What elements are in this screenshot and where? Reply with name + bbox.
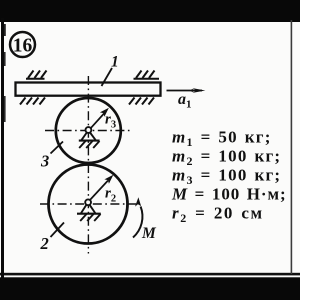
- label 3 leader line: [51, 142, 64, 154]
- pulley 2: [49, 165, 128, 244]
- svg-text:M = 100 Н·м;: M = 100 Н·м;: [171, 185, 287, 204]
- problem number badge 16: [10, 32, 35, 57]
- svg-text:3: 3: [40, 152, 49, 171]
- scan border: right thin line: [291, 20, 293, 274]
- given values text block: [171, 128, 287, 226]
- svg-text:M: M: [141, 225, 157, 242]
- beam 1 (rod): [16, 83, 161, 96]
- scan border: bottom black band: [0, 277, 300, 300]
- scan border: left black line: [1, 18, 4, 280]
- moment arc M: [133, 197, 142, 237]
- scan border: left edge nub 3: [4, 96, 6, 122]
- pulley 3: [56, 98, 121, 163]
- pin support of pulley 3: [79, 133, 100, 149]
- floor hatch below beam left: [20, 98, 45, 105]
- ceiling hatch line top-right: [134, 71, 160, 79]
- svg-text:1: 1: [111, 54, 119, 71]
- pulley 3 horizontal centerline: [45, 130, 132, 132]
- pulley 2 horizontal centerline: [40, 203, 136, 205]
- label 2 leader line: [51, 223, 65, 238]
- pin (hinge) of pulley 3: [86, 127, 92, 133]
- svg-text:2: 2: [40, 234, 49, 253]
- floor hatch below beam right: [129, 98, 154, 105]
- ceiling hatch line top-left: [26, 71, 47, 79]
- scan border: left edge nub 2: [4, 52, 6, 66]
- label 1 leader line: [102, 68, 113, 86]
- radius arrow r2: [89, 175, 113, 201]
- vertical centerline (dash-dot): [87, 76, 89, 254]
- pin support of pulley 2: [77, 205, 101, 221]
- scan border: bottom rule line: [0, 273, 300, 276]
- scan border: left edge nub 1: [4, 24, 6, 36]
- acceleration arrow a1: [167, 88, 206, 93]
- svg-text:16: 16: [13, 35, 33, 56]
- radius arrow r3: [90, 108, 109, 130]
- pin (hinge) of pulley 2: [85, 199, 91, 205]
- scan border: top black band: [0, 0, 300, 22]
